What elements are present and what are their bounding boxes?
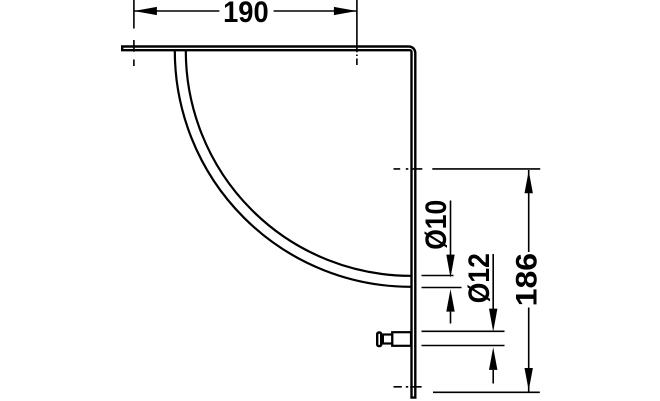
svg-text:Ø12: Ø12 <box>463 253 496 303</box>
svg-text:Ø10: Ø10 <box>420 200 453 250</box>
svg-text:186: 186 <box>511 253 544 307</box>
svg-text:190: 190 <box>223 0 269 29</box>
